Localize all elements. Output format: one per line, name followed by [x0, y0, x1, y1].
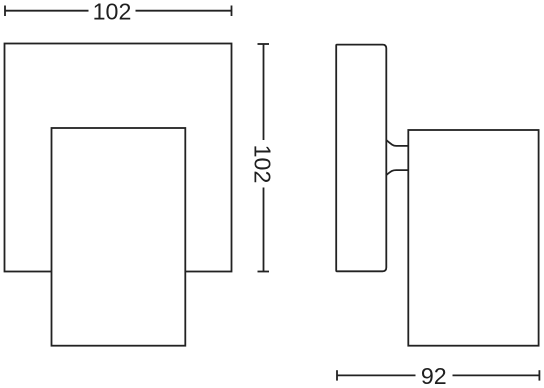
svg-text:92: 92	[421, 363, 447, 388]
svg-text:102: 102	[250, 145, 276, 184]
svg-text:102: 102	[93, 0, 132, 25]
